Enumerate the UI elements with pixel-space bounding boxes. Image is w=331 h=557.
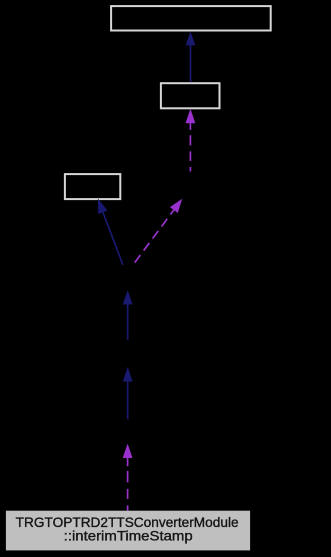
svg-text:::interimTimeStamp: ::interimTimeStamp	[64, 529, 193, 544]
